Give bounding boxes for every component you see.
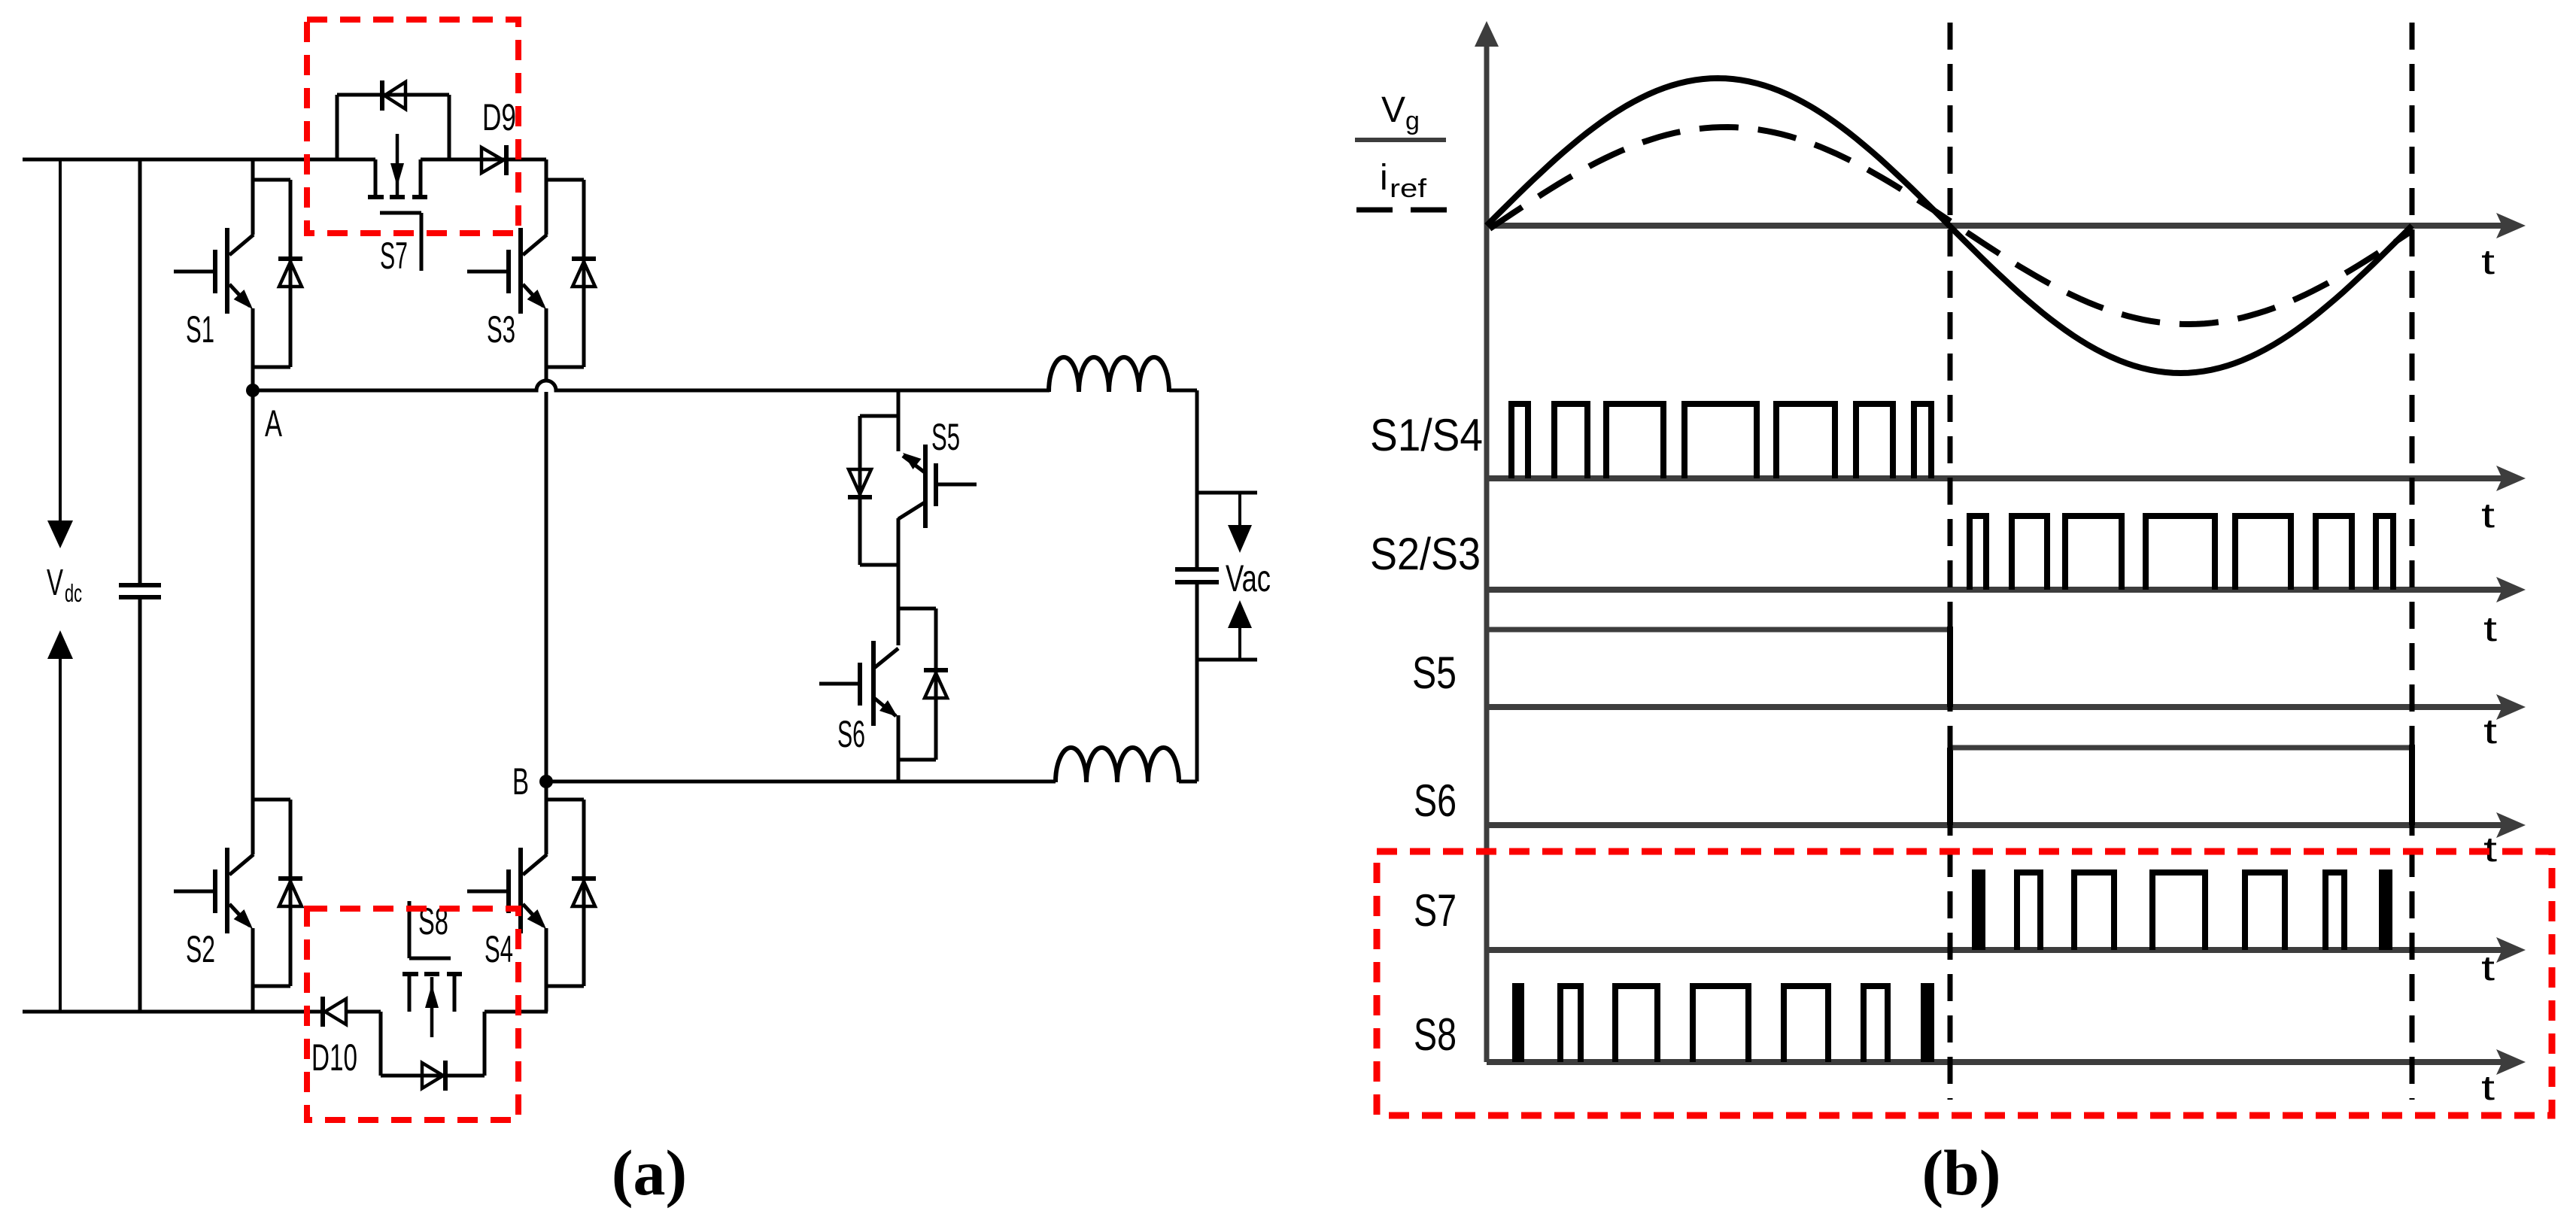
svg-text:t: t [2483,712,2497,751]
wire output right branch [1169,390,1197,781]
diode D8 (S8 antiparallel, points right) [422,1061,445,1091]
label S7 row [1414,885,1457,936]
label A [265,402,282,445]
svg-text:S7: S7 [380,235,408,277]
wire S5 emitter from node-A line [897,390,901,451]
dashed vertical line (zero crossing right) [2410,23,2415,1100]
MOSFET S8 body arrow [425,977,439,1037]
diode D10 [323,997,346,1027]
label S2 [186,928,215,970]
wire S5 collector down [897,518,901,565]
transistor S5 [898,445,977,528]
MOSFET S8 channel [402,974,462,1012]
label t (S1/S4 axis) [2481,496,2495,535]
wire S1 collector [251,159,255,235]
svg-text:Vac: Vac [1226,557,1271,599]
svg-text:S6: S6 [1414,775,1457,826]
inductor L2 (lower) [1056,748,1179,782]
svg-text:B: B [512,760,529,803]
wire S2 collector from node A [251,390,255,854]
curve Vg (solid sine) [1487,78,2412,373]
diode D5 (S5 antiparallel, points down) [848,469,872,497]
MOSFET S8 gate [409,901,451,958]
wire node B to lower inductor [546,780,1056,784]
MOSFET S7 gate [380,213,421,271]
label S6 [837,713,865,755]
label S8 [418,900,448,942]
svg-text:ref: ref [1390,175,1427,203]
label t (S5 axis) [2483,712,2497,751]
axis t row S7 [1487,937,2526,963]
svg-text:(b): (b) [1921,1137,2000,1209]
wire S8 antiparallel diode loop [381,1012,485,1076]
wire S7 antiparallel diode loop [337,95,449,159]
svg-text:t: t [2481,948,2495,988]
svg-text:D9: D9 [482,96,516,138]
wire S2 diode branch [253,800,290,986]
label t (S2/S3 axis) [2483,609,2497,648]
wire S4 collector from node B [545,781,548,854]
node A [246,384,260,397]
node B [539,775,553,788]
MOSFET S7 body arrow [390,134,404,196]
svg-text:V: V [47,563,63,603]
inductor L1 (upper) [1049,357,1169,392]
wire S3 diode branch [546,180,584,367]
waveform S7 pulses [1972,869,2392,950]
svg-text:(a): (a) [612,1137,687,1209]
svg-text:S2/S3: S2/S3 [1370,529,1481,579]
arrow Vdc lower (points up) [47,630,73,1012]
svg-text:S5: S5 [931,416,960,458]
wire top rail (positive DC bus) [23,158,546,162]
svg-text:t: t [2481,496,2495,535]
arrow Vac bottom (points up) [1228,600,1252,660]
axis t row S6 [1487,812,2526,838]
diode D6 (S6 antiparallel, points up) [924,670,948,698]
label S1 [186,308,214,351]
label t (S7 axis) [2481,948,2495,988]
wire S4 diode branch [546,800,584,986]
label S6 row [1414,775,1457,826]
legend label iref [1380,158,1427,203]
svg-text:A: A [265,402,282,445]
svg-text:S1: S1 [186,308,214,351]
label S7 [380,235,408,277]
svg-text:S4: S4 [485,928,513,970]
red dashed box around S7 cell [307,20,518,233]
wire S3 collector [545,159,548,235]
wire S3 emitter down to node B [545,308,548,781]
diode D1 (S1 antiparallel) [278,259,302,287]
curve iref (dashed sine) [1490,127,2412,324]
label t (Vg axis) [2481,242,2495,281]
wire S1 emitter to node A [251,308,255,390]
wire S6 antiparallel diode loop [898,608,936,760]
arrow Vac top (points down) [1228,493,1252,553]
label S5 row [1412,648,1457,698]
svg-text:t: t [2481,242,2495,281]
wire S2 emitter [251,928,255,1012]
diode D4 (S4 antiparallel) [572,879,596,906]
label S4 [485,928,513,970]
axis t row S5 [1487,694,2526,720]
svg-text:S8: S8 [1414,1009,1457,1060]
capacitor C1 (DC link) [119,159,161,1012]
red dashed box around S7 and S8 rows [1377,851,2552,1115]
wire node A to S5 branch with hop over S3 emitter [253,381,1050,390]
label D10 [311,1036,357,1079]
wire bottom rail (negative DC bus) [23,1010,548,1014]
axis vertical (b) [1475,21,1499,1062]
label S3 [487,308,515,351]
svg-text:S6: S6 [837,713,865,755]
waveform S2/S3 pulses [1970,516,2393,590]
capacitor C2 (Vac output) [1175,569,1219,582]
IGBT S2 [174,848,254,933]
dashed vertical line (zero crossing left) [1948,23,1953,1100]
waveform S8 pulses [1512,983,1934,1062]
label Vdc [47,563,82,607]
label S1/S4 row [1370,410,1483,460]
svg-text:S3: S3 [487,308,515,351]
IGBT S3 [467,228,547,314]
diode D2 (S2 antiparallel) [278,879,302,906]
legend sample Vg (solid line) [1355,138,1446,142]
svg-text:S5: S5 [1412,648,1457,698]
diode D9 [481,145,506,175]
axis t row S1/S4 [1487,466,2526,491]
wire S6 emitter to node-B line [897,715,901,781]
svg-text:i: i [1380,158,1388,198]
waveform S6 level [1950,745,2412,825]
svg-text:S2: S2 [186,928,215,970]
axis t row S8 [1487,1049,2526,1075]
label S8 row [1414,1009,1457,1060]
label (a) [612,1137,687,1209]
waveform S1/S4 pulses [1511,404,1931,478]
wire S4 emitter [545,928,548,1012]
legend label Vg [1381,90,1420,135]
svg-text:dc: dc [65,579,82,607]
wire S1 diode branch [253,180,290,367]
transistor S6 [819,641,898,726]
wire Vac sense bottom [1197,658,1257,662]
label D9 [482,96,516,138]
svg-text:t: t [2481,1068,2495,1107]
waveform S5 level [1487,627,1950,707]
red dashed box around S8 cell [307,909,518,1120]
wire S6 collector [897,565,901,645]
label S5 [931,416,960,458]
legend sample iref (dashed line) [1356,208,1447,213]
label B [512,760,529,803]
arrow Vdc upper (points down) [47,159,73,548]
svg-text:S7: S7 [1414,885,1457,936]
IGBT S4 [467,848,547,933]
label Vac [1226,557,1271,599]
wire Vac sense top [1197,491,1257,495]
axis t row Vg [1487,213,2526,238]
diode D3 (S3 antiparallel) [572,259,596,287]
label (b) [1921,1137,2000,1209]
wire S5 antiparallel diode loop [860,416,898,565]
IGBT S1 [174,228,254,314]
svg-text:t: t [2483,609,2497,648]
svg-text:D10: D10 [311,1036,357,1079]
label t (S6 axis) [2483,830,2497,869]
MOSFET S7 channel [368,159,427,197]
axis t row S2/S3 [1487,577,2526,602]
label t (S8 axis) [2481,1068,2495,1107]
label S2/S3 row [1370,529,1481,579]
diode D7 (S7 antiparallel, points left) [382,80,406,111]
svg-text:S1/S4: S1/S4 [1370,410,1483,460]
